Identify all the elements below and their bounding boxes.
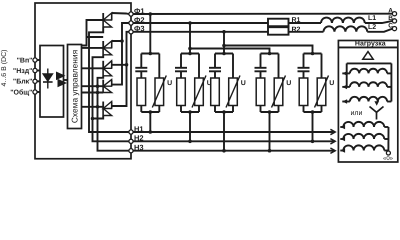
wire opto box to control box bbox=[64, 79, 68, 81]
terminal N2 bbox=[129, 134, 144, 144]
jumper F3 branch to snubber 5 bbox=[222, 44, 312, 54]
load winding W5 (star option) bbox=[340, 134, 388, 141]
svg-text:"Общ": "Общ" bbox=[10, 88, 32, 96]
capacitor C3 + resistor R3a snubber branch bbox=[209, 52, 233, 112]
snubber 3 bottom junction to line bbox=[215, 110, 233, 152]
svg-text:Нагрузка: Нагрузка bbox=[355, 40, 386, 47]
varistor RU5 bbox=[315, 54, 335, 113]
svg-text:U: U bbox=[167, 80, 172, 87]
gate wire VS3 bbox=[82, 67, 104, 69]
capacitor C1 + resistor R1a snubber branch bbox=[135, 52, 159, 112]
winding tap arrow down bbox=[374, 101, 379, 106]
svg-text:U: U bbox=[241, 80, 246, 87]
control circuit box (Schema upravleniya) bbox=[68, 45, 82, 129]
wire F3 to VS3/VS5 bbox=[112, 32, 129, 106]
svg-text:A: A bbox=[388, 8, 393, 15]
wire F2 to VS2/VS4 bbox=[112, 23, 129, 85]
neutral terminal 0 bbox=[383, 151, 394, 163]
load winding W6 (star option) bbox=[340, 145, 388, 152]
gate wire VS5 bbox=[82, 105, 104, 109]
terminal N1 bbox=[129, 124, 144, 134]
control input terminal Blk bbox=[13, 79, 41, 86]
capacitor C2 + resistor R2a snubber branch bbox=[175, 52, 199, 112]
gate wire VS4 bbox=[82, 84, 104, 88]
label ili (or) bbox=[351, 110, 363, 117]
wire VS3 cathode to N3 bbox=[96, 76, 129, 151]
triac VS3 bbox=[103, 61, 111, 76]
load box (Nagruzka) bbox=[338, 40, 397, 162]
triac VS4 bbox=[103, 80, 111, 93]
terminal F3 bbox=[129, 24, 145, 34]
svg-text:или: или bbox=[351, 110, 363, 117]
varistor RU4 bbox=[272, 54, 292, 113]
svg-text:"Вп": "Вп" bbox=[17, 57, 33, 64]
resistor R2 bbox=[268, 27, 301, 35]
load winding W1 (delta option) bbox=[342, 69, 391, 76]
star point symbol bbox=[370, 107, 384, 120]
triac VS1 bbox=[103, 13, 111, 27]
gate wire VS2 bbox=[82, 47, 104, 49]
svg-text:U: U bbox=[329, 80, 334, 87]
capacitor C5 + resistor R5a snubber branch bbox=[298, 52, 322, 112]
delta winding group frame bbox=[347, 63, 392, 101]
output line N2 bus bbox=[133, 139, 335, 144]
junction F3 to snubber 3 bbox=[222, 30, 226, 54]
phase line F1 bus bbox=[133, 13, 392, 15]
device enclosure box bbox=[35, 3, 131, 159]
terminal F1 bbox=[129, 6, 145, 16]
phase line F3 bus bbox=[133, 29, 392, 32]
control input terminal Obshch bbox=[10, 88, 40, 96]
svg-text:4...6 В (DC): 4...6 В (DC) bbox=[0, 50, 8, 87]
varistor RU3 bbox=[226, 54, 246, 113]
star common bus bbox=[387, 127, 389, 151]
svg-text:R1: R1 bbox=[292, 17, 301, 24]
delta connection symbol bbox=[363, 52, 373, 60]
snubber 5 bottom junction to line bbox=[304, 110, 322, 143]
wire VS2 cathode to N2 bbox=[91, 55, 129, 142]
terminal N3 bbox=[129, 143, 144, 153]
svg-text:R2: R2 bbox=[292, 27, 301, 34]
capacitor C4 + resistor R4a snubber branch bbox=[255, 52, 279, 112]
svg-text:"Блк": "Блк" bbox=[13, 79, 33, 86]
svg-text:B: B bbox=[388, 15, 393, 22]
optocoupler LED D1 bbox=[43, 69, 53, 89]
load winding W2 (delta option) bbox=[342, 82, 391, 89]
wire VS5 cathode join bbox=[93, 116, 104, 119]
wire VS1 cathode to N1 bbox=[89, 27, 129, 132]
resistor R1 bbox=[268, 17, 301, 26]
optocoupler light arrows bbox=[56, 72, 67, 88]
terminal B bbox=[388, 15, 396, 23]
svg-text:C: C bbox=[388, 23, 393, 30]
inductor L2 bbox=[324, 24, 377, 32]
svg-text:L1: L1 bbox=[368, 15, 376, 22]
snubber 1 bottom junction to line bbox=[141, 110, 159, 134]
terminal A bbox=[388, 8, 396, 16]
load winding W4 (star option) bbox=[340, 122, 388, 129]
snubber 2 bottom junction to line bbox=[181, 110, 199, 143]
terminal C bbox=[388, 23, 396, 31]
jumper F2 branch to snubber 4 bbox=[188, 47, 269, 54]
junction F2 to snubber 2 bbox=[188, 21, 192, 53]
svg-text:U: U bbox=[286, 80, 291, 87]
optocoupler input box bbox=[40, 46, 64, 118]
svg-text:L2: L2 bbox=[368, 24, 376, 31]
svg-text:Схема управления: Схема управления bbox=[69, 50, 79, 123]
wire VS1 anode to F1 bbox=[112, 13, 129, 14]
control input terminal Nzd bbox=[13, 68, 41, 75]
gate wire VS1 bbox=[82, 20, 104, 46]
output line N1 bus bbox=[133, 129, 335, 134]
varistor RU2 bbox=[192, 54, 212, 113]
load winding W3 (delta option) bbox=[342, 97, 391, 104]
wire VS4 cathode join bbox=[82, 92, 104, 94]
gate aux wire VS2 bbox=[87, 36, 104, 38]
svg-text:«0»: «0» bbox=[383, 155, 394, 162]
terminal F2 bbox=[129, 15, 145, 25]
output line N3 bus bbox=[133, 148, 335, 153]
control input terminal Vp bbox=[17, 57, 41, 64]
svg-text:"Нзд": "Нзд" bbox=[13, 68, 33, 75]
triac VS5 bbox=[103, 102, 111, 116]
inductor L1 bbox=[321, 15, 376, 23]
snubber 4 bottom junction to line bbox=[261, 110, 279, 152]
wire F1 junction to snubber 1 bbox=[149, 12, 153, 53]
triac VS2 bbox=[103, 41, 111, 55]
varistor RU1 bbox=[152, 54, 172, 113]
label 4...6 V DC supply bbox=[0, 50, 8, 87]
phase line F2 bus bbox=[133, 21, 392, 23]
